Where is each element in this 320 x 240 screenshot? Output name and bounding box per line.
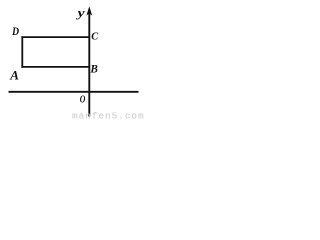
svg-text:O: O xyxy=(80,93,86,105)
rectangle ABCD: side DC (top edge) xyxy=(21,36,89,38)
y-axis xyxy=(88,13,90,117)
svg-text:C: C xyxy=(91,31,99,43)
svg-text:B: B xyxy=(89,64,98,76)
rectangle ABCD: side DA (left edge) xyxy=(21,36,23,68)
svg-text:D: D xyxy=(11,26,20,38)
svg-text:A: A xyxy=(9,67,19,82)
y-axis arrowhead xyxy=(86,6,92,15)
rectangle ABCD: side AB (bottom edge) xyxy=(21,66,89,68)
x-axis xyxy=(9,91,139,93)
svg-text:manfen5.com: manfen5.com xyxy=(72,110,145,121)
background xyxy=(0,0,146,121)
